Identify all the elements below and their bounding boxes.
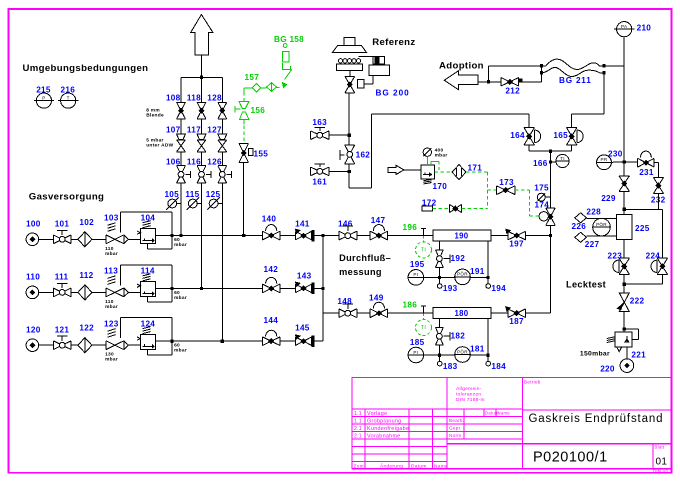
thermowell 186	[423, 306, 425, 313]
instrument 228 POR	[593, 218, 611, 236]
svg-text:Referenz: Referenz	[372, 37, 415, 48]
valve 140 control globe	[262, 231, 280, 240]
svg-text:unter ADW: unter ADW	[146, 143, 173, 149]
svg-text:156: 156	[251, 106, 266, 115]
wire 170 pilot green	[431, 161, 439, 163]
svg-text:DIN 7168-m: DIN 7168-m	[456, 397, 485, 403]
wire green dashed	[462, 208, 488, 210]
svg-text:190: 190	[455, 232, 469, 241]
wire manifold middle	[348, 135, 350, 145]
svg-text:Adoption: Adoption	[439, 61, 484, 72]
wire vent stem	[200, 55, 202, 77]
svg-text:T: T	[67, 95, 70, 100]
svg-text:127: 127	[207, 126, 222, 135]
wire branch to 224	[624, 208, 662, 210]
svg-text:2.1: 2.1	[354, 426, 362, 432]
wire row3 to 144	[172, 340, 262, 342]
wire gauge green	[426, 156, 428, 165]
svg-text:122: 122	[79, 324, 94, 333]
node instrument line right	[486, 276, 489, 279]
wire	[280, 340, 295, 342]
wire green 157 line	[244, 87, 253, 89]
svg-text:101: 101	[55, 220, 70, 229]
svg-text:123: 123	[104, 319, 119, 328]
svg-text:Gepr.: Gepr.	[449, 425, 462, 430]
svg-text:142: 142	[264, 265, 279, 274]
svg-text:BG 158: BG 158	[274, 35, 304, 44]
svg-text:Umgebungsbedungungen: Umgebungsbedungungen	[23, 63, 149, 74]
svg-text:165: 165	[553, 131, 568, 140]
valve 106 three-way ball	[177, 166, 186, 183]
wire 232 down	[658, 194, 660, 210]
svg-text:222: 222	[630, 297, 645, 306]
wire green dashed to igniter	[276, 87, 281, 89]
valve 187	[508, 309, 526, 318]
svg-text:Name: Name	[434, 463, 448, 469]
valve 163	[311, 131, 329, 140]
node collector row1	[321, 234, 324, 237]
svg-text:162: 162	[356, 150, 371, 159]
svg-text:227: 227	[585, 240, 600, 249]
svg-text:Bearb.: Bearb.	[449, 418, 464, 423]
sheet box	[652, 444, 654, 469]
svg-text:113: 113	[104, 267, 118, 276]
svg-text:mbar: mbar	[174, 348, 187, 354]
svg-text:175: 175	[534, 184, 549, 193]
valve BG200 burner valve	[345, 76, 355, 92]
svg-text:194: 194	[491, 284, 506, 293]
svg-text:126: 126	[207, 157, 222, 166]
wire	[280, 287, 295, 289]
svg-text:BG 211: BG 211	[559, 76, 592, 85]
valve 182	[436, 327, 444, 345]
wire column 105 to row1	[180, 204, 182, 236]
svg-text:171: 171	[468, 164, 483, 173]
svg-text:117: 117	[187, 126, 201, 135]
svg-text:195: 195	[410, 260, 425, 269]
wire 212 to hose	[519, 81, 542, 83]
wire green riser 172-171	[486, 172, 488, 208]
svg-text:Durchfluß–: Durchfluß–	[339, 253, 391, 263]
svg-text:TI: TI	[560, 156, 565, 161]
wire manifold elbow to riser	[349, 187, 371, 189]
svg-text:181: 181	[470, 345, 485, 354]
wire bottom loop	[147, 350, 149, 355]
valve 165	[567, 128, 577, 145]
wire bottom loop	[147, 297, 149, 302]
drain 183	[438, 355, 440, 361]
node 221 inlet	[623, 328, 626, 331]
node instrument line left	[438, 276, 441, 279]
node collector row2	[321, 287, 324, 290]
valve 126 three-way ball	[218, 166, 227, 183]
svg-text:mbar: mbar	[174, 295, 187, 301]
wire 149 to 180	[388, 312, 433, 314]
valve 118 solenoid	[197, 102, 206, 118]
wire 127-126	[221, 152, 223, 166]
orifice 125	[209, 199, 218, 208]
svg-text:147: 147	[371, 216, 386, 225]
wire 224 bottom	[661, 274, 663, 284]
wire 225 to 223	[623, 240, 625, 259]
wire	[314, 340, 323, 342]
svg-text:P020100/1: P020100/1	[533, 450, 608, 466]
node leak junction	[623, 283, 626, 286]
valve 172	[449, 204, 461, 212]
drain 194	[487, 278, 489, 284]
wire	[92, 344, 106, 346]
node regulator outlet junction	[171, 234, 174, 237]
wire manifold lower	[348, 164, 350, 188]
svg-text:164: 164	[510, 131, 525, 140]
svg-text:PÖR: PÖR	[596, 221, 607, 227]
svg-text:Norm: Norm	[449, 433, 461, 438]
wire 163 to manifold	[329, 134, 349, 136]
node hose right bottom	[602, 71, 605, 74]
wire vent header	[181, 76, 222, 78]
wire measurement header	[550, 225, 552, 313]
valve 164	[524, 128, 534, 145]
wire column 125 to row3	[221, 204, 223, 342]
wire 223 bottom	[623, 274, 625, 293]
valve 107 pressure regulator	[177, 134, 186, 139]
valve 108 solenoid	[177, 102, 186, 118]
sight glass 157b	[267, 83, 277, 92]
wire sensor to coupling	[364, 83, 373, 85]
instrument 230 PR	[597, 155, 612, 170]
wire adoption line	[478, 81, 501, 83]
wire arrow to 170	[404, 169, 421, 171]
node vent junction	[200, 76, 203, 79]
svg-text:116: 116	[187, 157, 201, 166]
svg-text:PI: PI	[413, 350, 418, 355]
wire 161 to manifold	[329, 170, 349, 172]
inlet arrow	[388, 165, 404, 174]
svg-text:145: 145	[295, 323, 310, 332]
hose BG211 flexible	[546, 59, 624, 69]
svg-text:157: 157	[245, 73, 260, 82]
wire column 115 to row2	[201, 204, 203, 289]
valve 173	[496, 186, 515, 195]
instrument 181 POR	[455, 347, 471, 363]
valve 161	[311, 167, 329, 176]
wire 164 feed	[528, 114, 530, 128]
svg-text:191: 191	[470, 267, 485, 276]
node 212 outlet	[519, 78, 522, 81]
svg-text:161: 161	[312, 178, 327, 187]
wire 190 outlet	[491, 235, 508, 237]
drain 184	[487, 355, 489, 361]
instrument 215 ambient pressure	[36, 93, 51, 108]
drain 193	[438, 278, 440, 284]
valve 149 control globe	[370, 309, 388, 318]
wire column 128 drop	[221, 77, 223, 102]
node 155-row1	[242, 234, 245, 237]
wire 107-106	[180, 152, 182, 166]
wire branch to 231	[624, 161, 637, 163]
wire bottom loop	[147, 244, 149, 249]
valve 231 globe	[638, 158, 655, 167]
instrument 216 ambient temperature	[61, 93, 76, 108]
valve 127 pressure regulator	[218, 134, 227, 139]
svg-text:106: 106	[166, 157, 181, 166]
gauge 400mbar	[423, 148, 431, 156]
svg-text:225: 225	[635, 224, 650, 233]
valve 212	[501, 78, 519, 86]
wire row1 to 190	[388, 235, 433, 237]
coupling square	[357, 80, 364, 88]
svg-text:144: 144	[264, 316, 279, 325]
wire 190 right drop	[487, 241, 489, 278]
svg-text:107: 107	[166, 126, 181, 135]
wire row2 to 142	[172, 287, 262, 289]
regulator 170	[421, 165, 435, 179]
valve 222	[619, 293, 629, 302]
wire 192 down	[438, 267, 440, 277]
wire	[92, 238, 106, 240]
svg-text:1.1: 1.1	[354, 411, 362, 417]
node col1-row1	[179, 234, 182, 237]
wire 221 to 220	[626, 347, 628, 359]
vessel 225	[617, 215, 632, 240]
svg-text:Allgemein-: Allgemein-	[456, 386, 482, 392]
sample point 227 diamond	[575, 232, 587, 242]
wire green	[261, 87, 267, 89]
wire adoption top line	[488, 66, 490, 82]
wire pilot loop	[121, 317, 173, 319]
sight glass 157a	[252, 84, 260, 92]
svg-text:192: 192	[451, 254, 466, 263]
wire header to 164	[371, 113, 529, 115]
wire join to measurement header	[550, 151, 552, 208]
sensor BG158 flame monitor	[283, 44, 287, 48]
svg-text:163: 163	[312, 118, 327, 127]
node measurement header row1	[549, 234, 552, 237]
svg-text:mbar: mbar	[105, 251, 118, 257]
svg-text:210: 210	[637, 24, 652, 33]
svg-text:111: 111	[55, 273, 69, 282]
wire 180 outlet	[491, 312, 508, 314]
wire 126-125	[221, 183, 223, 203]
svg-text:P: P	[42, 95, 45, 100]
svg-text:mbar: mbar	[435, 153, 448, 159]
node regulator outlet junction	[171, 287, 174, 290]
svg-text:mbar: mbar	[174, 242, 187, 248]
svg-text:220: 220	[600, 365, 615, 374]
valve 117 pressure regulator	[197, 134, 206, 139]
svg-text:173: 173	[499, 178, 514, 187]
svg-text:125: 125	[206, 190, 221, 199]
svg-text:BG 200: BG 200	[376, 88, 410, 97]
svg-text:231: 231	[639, 168, 654, 177]
wire pilot loop	[121, 264, 173, 266]
valve 147 control globe	[370, 231, 388, 240]
valve 116 three-way ball	[197, 166, 206, 183]
flow element 180	[433, 308, 491, 319]
wire burner sensor link	[359, 56, 374, 58]
svg-text:Änderung: Änderung	[380, 462, 403, 469]
svg-text:141: 141	[295, 219, 310, 228]
svg-text:230: 230	[608, 149, 623, 158]
valve 192	[436, 250, 444, 268]
wire	[71, 291, 78, 293]
svg-text:01: 01	[656, 457, 668, 468]
svg-text:184: 184	[491, 362, 506, 371]
valve 232	[654, 178, 664, 194]
node hose left bottom	[540, 71, 543, 74]
svg-text:112: 112	[79, 271, 93, 280]
wire sample tap lower	[586, 235, 616, 237]
wire valve drop to manifold	[348, 93, 350, 134]
svg-text:170: 170	[433, 182, 448, 191]
filter 171	[452, 165, 466, 180]
title block left table	[352, 408, 447, 410]
wire 118-117	[201, 119, 203, 134]
wire 210 drop / main right header	[623, 37, 625, 162]
node hose right top	[602, 64, 605, 67]
wire	[314, 235, 339, 237]
wire 108-107	[180, 119, 182, 134]
burner BG200 body	[337, 64, 363, 71]
svg-text:146: 146	[338, 219, 353, 228]
svg-text:102: 102	[79, 218, 94, 227]
sensor box BG200	[373, 57, 385, 64]
node 230 junction	[623, 160, 626, 163]
valve 128 solenoid	[218, 102, 227, 118]
valve 155	[239, 144, 248, 163]
wire burner to valve	[349, 71, 351, 77]
wire instrument line	[439, 277, 488, 279]
valve 148 ball	[339, 309, 357, 318]
instrument 166 TI	[551, 161, 557, 163]
title block frame	[352, 378, 672, 469]
wire regulator outlet	[156, 340, 173, 342]
wire regulator outlet	[156, 235, 173, 237]
wire 116-115	[201, 183, 203, 203]
sample point 226 diamond	[575, 213, 587, 223]
svg-text:148: 148	[337, 297, 352, 306]
wire 222 to 221	[623, 312, 625, 332]
wire 117-116	[201, 152, 203, 166]
gauge 175	[537, 193, 545, 201]
svg-text:PÖR: PÖR	[457, 348, 468, 354]
instrument 191 POR	[455, 269, 471, 285]
svg-text:Lecktest: Lecktest	[566, 280, 606, 290]
svg-text:229: 229	[601, 194, 616, 203]
valve 223	[619, 258, 629, 274]
svg-text:166: 166	[533, 159, 548, 168]
svg-text:128: 128	[207, 93, 222, 102]
instrument 186 TI green	[423, 314, 425, 320]
valve 142 control globe	[262, 284, 280, 293]
valve 162	[345, 145, 355, 164]
node join 164-165	[549, 150, 552, 153]
svg-text:182: 182	[451, 332, 466, 341]
svg-text:149: 149	[369, 293, 384, 302]
flow element 190	[433, 230, 491, 241]
valve 224	[657, 258, 667, 274]
svg-text:115: 115	[185, 190, 199, 199]
node col2-row2	[200, 287, 203, 290]
wire 171 green dashed	[466, 171, 487, 173]
svg-text:103: 103	[104, 214, 119, 223]
svg-text:118: 118	[187, 93, 201, 102]
wire	[71, 238, 78, 240]
svg-text:150mbar: 150mbar	[580, 350, 610, 357]
svg-text:PI: PI	[413, 272, 418, 277]
wire green 156-155 dashed	[243, 120, 245, 125]
muffler 172	[422, 206, 433, 211]
svg-text:Zust.: Zust.	[354, 463, 366, 469]
wire green to 173	[487, 189, 496, 191]
svg-text:226: 226	[572, 222, 587, 231]
svg-text:Gasversorgung: Gasversorgung	[29, 192, 104, 203]
wire 187 to header	[526, 312, 551, 314]
svg-text:Betrieb: Betrieb	[524, 380, 541, 385]
wire row1 to 140	[172, 235, 262, 237]
wire	[129, 238, 141, 240]
wire	[92, 291, 106, 293]
wire	[71, 344, 78, 346]
svg-text:Vorabnahme: Vorabnahme	[367, 433, 401, 439]
wire hose to 165 feed	[603, 73, 605, 114]
orifice 115	[188, 199, 197, 208]
wire 182 down	[438, 345, 440, 355]
wire green riser	[243, 88, 245, 92]
svg-text:messung: messung	[339, 267, 382, 277]
svg-text:105: 105	[164, 190, 179, 199]
svg-text:Gaskreis Endprüfstand: Gaskreis Endprüfstand	[529, 413, 664, 425]
wire collector vertical	[322, 236, 324, 342]
svg-text:Grobplanung: Grobplanung	[367, 418, 401, 424]
svg-text:187: 187	[509, 317, 524, 326]
thermowell 196	[423, 229, 425, 236]
node regulator outlet junction	[171, 340, 174, 343]
valve 229	[619, 176, 629, 191]
valve 146 ball	[339, 231, 357, 240]
svg-text:TI: TI	[421, 248, 426, 254]
instrument 196 TI green	[423, 236, 425, 242]
wire column 108 drop	[180, 77, 182, 102]
wire green 173 to header	[515, 189, 530, 191]
svg-text:100: 100	[26, 220, 41, 229]
wire	[129, 291, 141, 293]
wire	[39, 344, 54, 346]
wire	[39, 291, 54, 293]
wire 128-127	[221, 119, 223, 134]
valve 144 control globe	[262, 337, 280, 346]
svg-text:Vorlage: Vorlage	[367, 411, 387, 417]
valve 156 green solenoid	[239, 102, 249, 109]
svg-text:DIN A3: DIN A3	[653, 469, 668, 474]
wire 180 left drop	[438, 318, 440, 327]
node hose left top	[540, 64, 543, 67]
svg-text:121: 121	[55, 325, 70, 334]
valve 174	[546, 208, 555, 225]
svg-text:Blende: Blende	[146, 113, 164, 119]
wire 231 to 232	[654, 162, 658, 164]
svg-text:155: 155	[254, 150, 269, 159]
adoption arrow	[444, 71, 478, 90]
svg-text:Kundenfreigabe: Kundenfreigabe	[367, 426, 409, 432]
wire sample tap upper	[586, 217, 616, 219]
svg-text:212: 212	[505, 87, 520, 96]
wire 155 to row1	[243, 163, 245, 236]
svg-text:TI: TI	[421, 325, 426, 331]
wire green dashed	[433, 208, 450, 210]
node col3-row3	[221, 340, 224, 343]
svg-text:120: 120	[26, 325, 41, 334]
